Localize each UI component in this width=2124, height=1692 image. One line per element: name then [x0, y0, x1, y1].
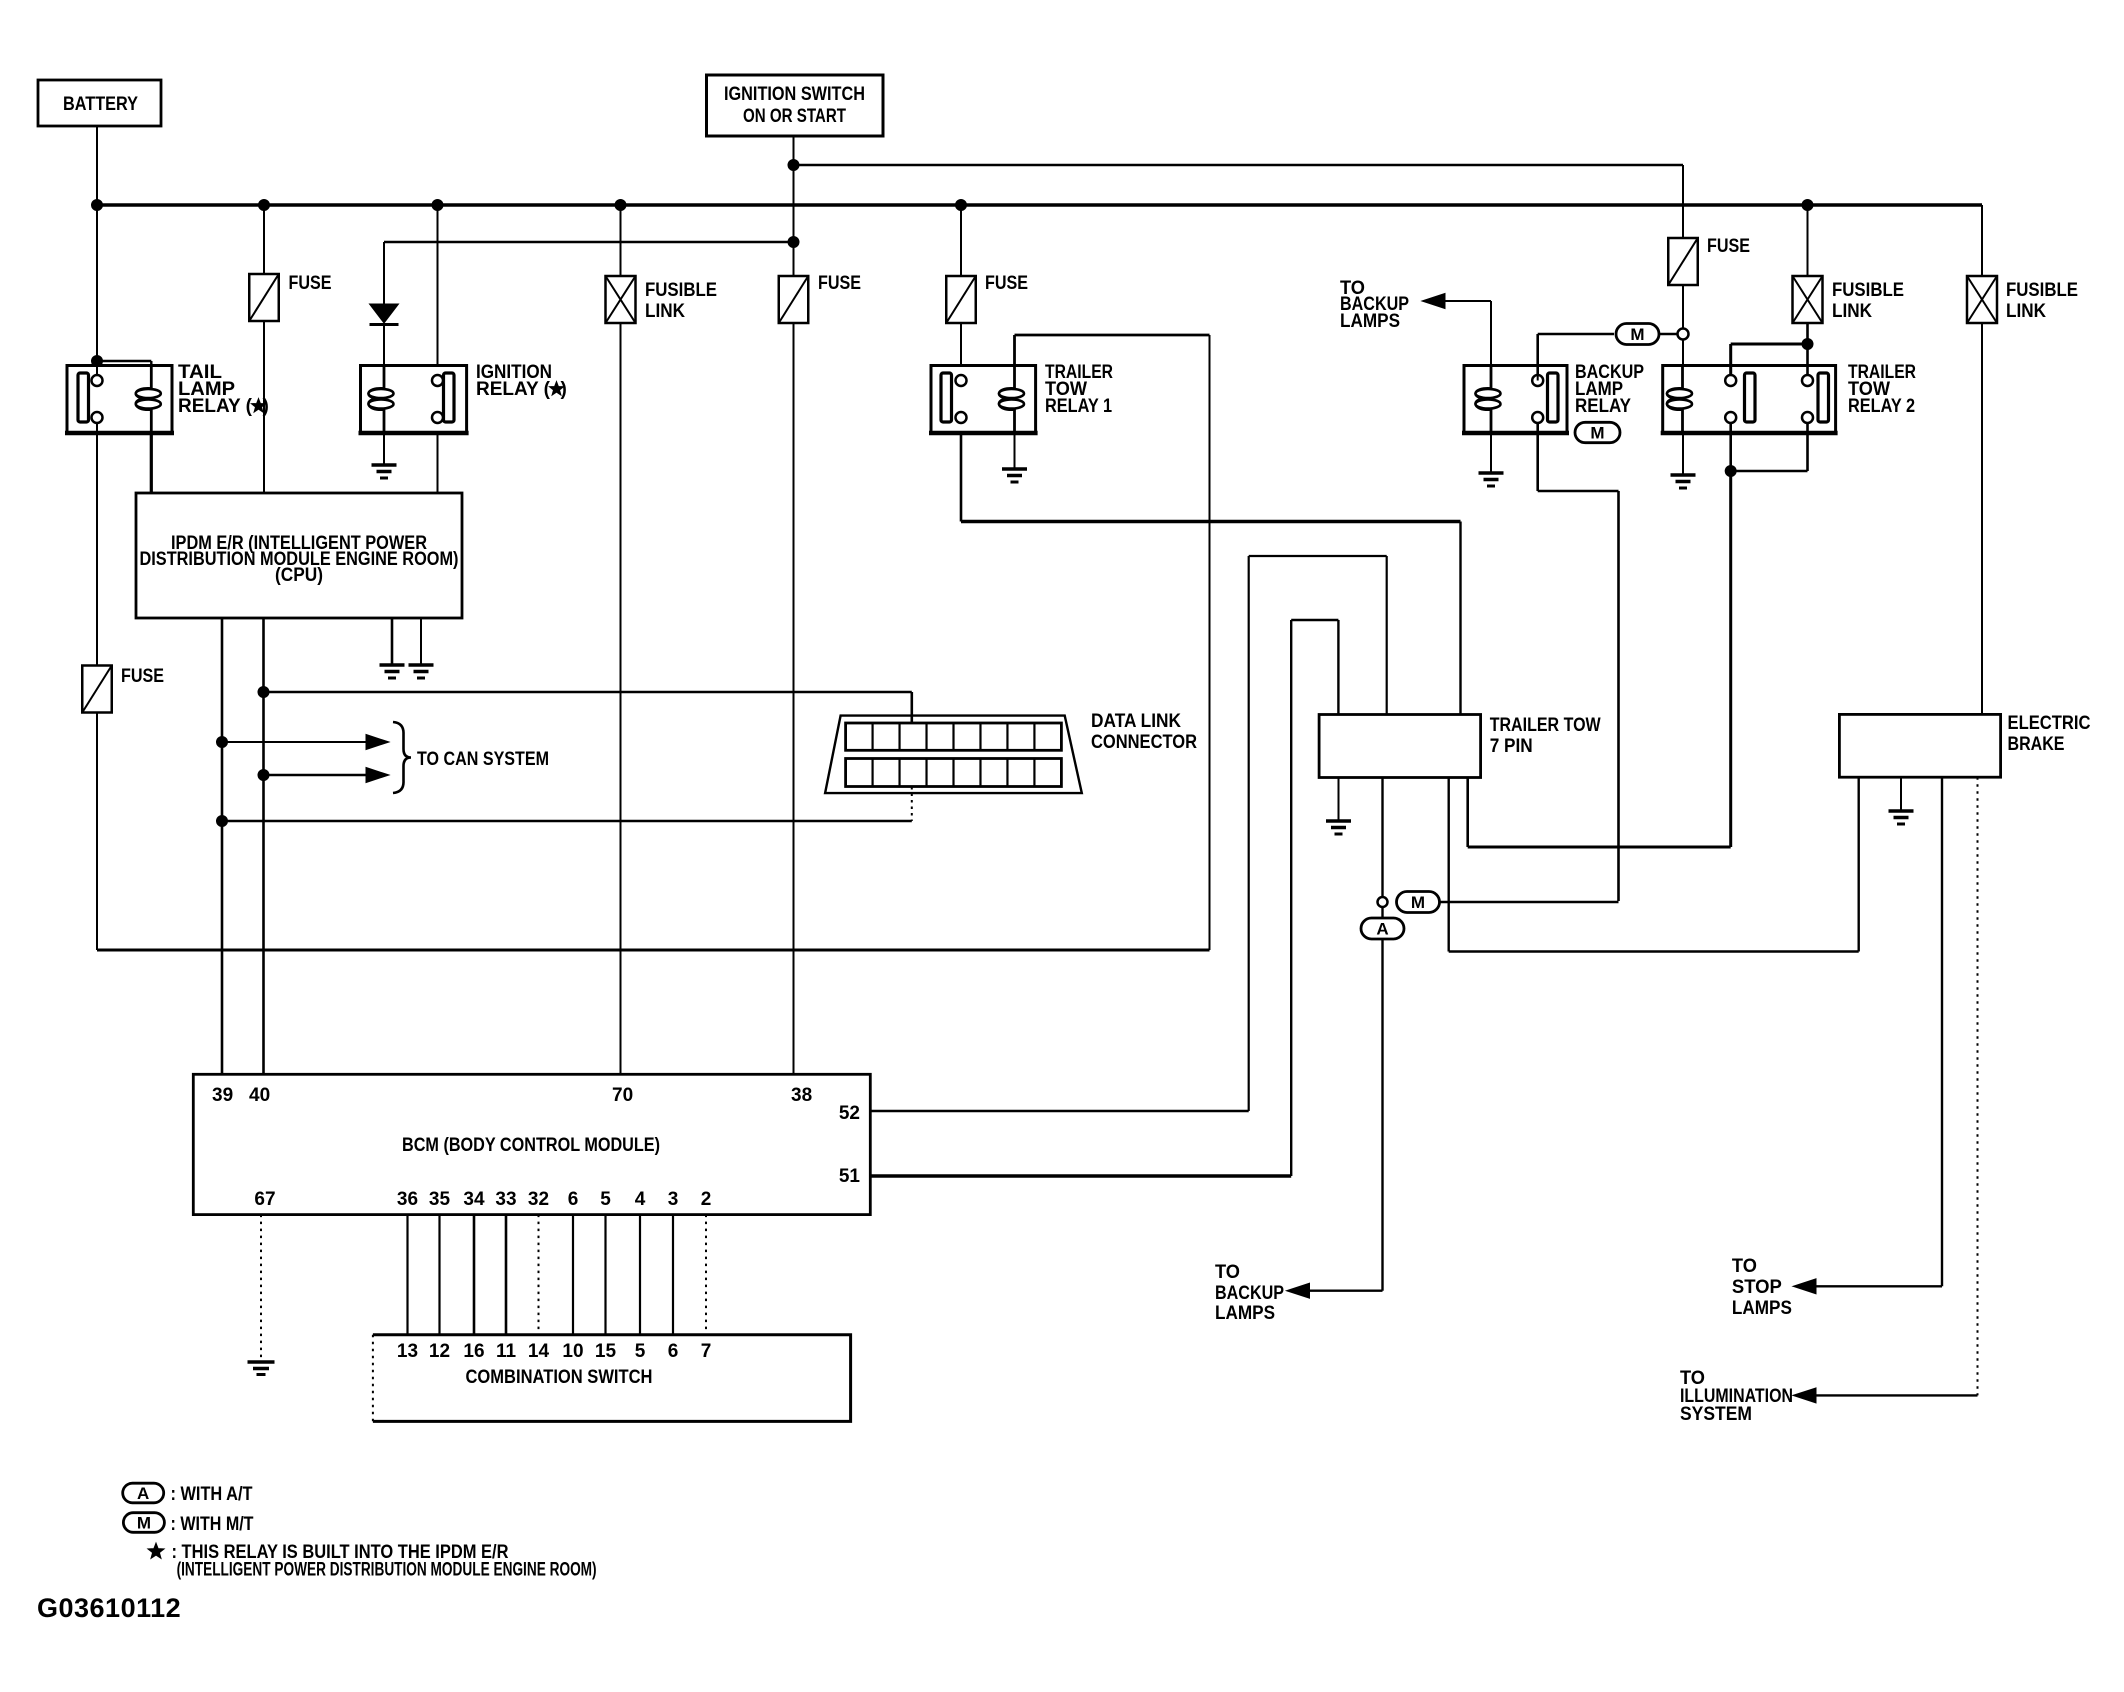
trailer tow relay 1 contact	[941, 373, 967, 423]
ignition relay coil	[369, 366, 394, 434]
wire ignition switch vertical to diode feed	[793, 165, 795, 242]
svg-text:5: 5	[635, 1341, 646, 1362]
wire to backup lamps with arrow	[1422, 294, 1491, 366]
svg-text:LAMPS: LAMPS	[1215, 1303, 1275, 1324]
svg-text:M: M	[1630, 325, 1644, 344]
svg-text:COMBINATION SWITCH: COMBINATION SWITCH	[466, 1367, 653, 1388]
wire relay 2 output down to y847 run	[1729, 471, 1732, 847]
brace TO CAN SYSTEM	[393, 722, 411, 793]
junction bus at tail lamp fuse	[259, 200, 270, 211]
label TRAILER TOW 7 PIN	[1490, 715, 1601, 757]
junction bus at trailer tow relay 1 fuse	[956, 200, 967, 211]
svg-text:10: 10	[562, 1341, 583, 1362]
svg-text:A: A	[137, 1484, 149, 1503]
wire trailer tow relay 1 coil feed up	[1013, 335, 1016, 366]
svg-text:M: M	[1590, 424, 1604, 443]
fuse (backup lamp relay feed)	[1668, 238, 1698, 285]
svg-text:(CPU): (CPU)	[275, 565, 323, 586]
wire branch to tail lamp relay coil	[97, 360, 151, 362]
junction BCM40 line / DLC line	[258, 687, 269, 698]
data link connector	[825, 716, 1082, 794]
svg-text:RELAY 1: RELAY 1	[1045, 396, 1112, 417]
svg-text:LINK: LINK	[1832, 301, 1872, 322]
star symbol in ignition relay label	[549, 382, 563, 396]
svg-text:G03610112: G03610112	[37, 1593, 181, 1623]
svg-text:ON OR START: ON OR START	[743, 106, 846, 127]
legend oval A	[123, 1483, 164, 1503]
svg-text:2: 2	[701, 1189, 712, 1210]
label TAIL LAMP RELAY (*)	[178, 362, 269, 417]
wire fuse to connector circle	[1682, 285, 1684, 329]
svg-text:5: 5	[600, 1189, 611, 1210]
tail lamp relay box	[65, 366, 174, 434]
wire bus to fuse (trailer tow relay 1)	[960, 205, 962, 276]
wire BCM to combination switch pin 13	[406, 1215, 408, 1335]
wire BCM to combination switch pin 6	[672, 1215, 674, 1335]
wire y847 run to trailer tow 7pin	[1468, 778, 1731, 848]
label ELECTRIC BRAKE	[2008, 713, 2091, 755]
svg-text:33: 33	[495, 1189, 516, 1210]
wire fuse down to cross run	[96, 713, 98, 951]
wire diode feed down	[383, 242, 385, 304]
svg-text:FUSE: FUSE	[818, 273, 861, 294]
junction trailer tow relay 2 contacts feed	[1802, 339, 1813, 350]
wire trailer tow relay 2 coil to ground	[1682, 433, 1684, 475]
wire BCM to combination switch pin 16	[473, 1215, 476, 1335]
svg-text:FUSE: FUSE	[289, 273, 332, 294]
wire relay 2 contact outputs joined	[1731, 423, 1808, 471]
oval M (M/T path to backup lamp relay)	[1397, 892, 1440, 913]
wire BCM pin 51 to trailer tow 7pin	[870, 620, 1338, 1176]
wire trailer tow relay 1 coil to ground	[1014, 433, 1016, 469]
svg-text:70: 70	[612, 1085, 633, 1106]
wire fuse to IPDM	[263, 321, 265, 494]
svg-text:RELAY: RELAY	[1575, 396, 1631, 417]
fuse (tail lamp relay output)	[82, 666, 112, 713]
wire ignition switch down	[793, 136, 795, 165]
fusible link (trailer tow relay 2)	[1793, 276, 1823, 323]
wire BCM to combination switch pin 11	[505, 1215, 508, 1335]
svg-text:11: 11	[496, 1341, 517, 1362]
wire ignition feed to fuse	[1682, 165, 1684, 238]
wire BCM pin 52 to trailer tow 7pin	[870, 556, 1386, 1111]
wire circle to A oval	[1381, 907, 1383, 918]
ground (trailer tow relay 1 coil)	[1002, 469, 1027, 482]
svg-text:M: M	[1411, 893, 1425, 912]
electric brake unit	[1839, 714, 2000, 777]
svg-text:BACKUP: BACKUP	[1215, 1283, 1284, 1304]
svg-text:LAMPS: LAMPS	[1732, 1298, 1792, 1319]
oval A (A/T path)	[1361, 918, 1404, 939]
legend oval M	[123, 1513, 164, 1533]
svg-text:TO CAN SYSTEM: TO CAN SYSTEM	[417, 749, 549, 770]
fuse (ignition feed to BCM 38)	[779, 276, 809, 323]
wire ignition feed bus (y165)	[794, 164, 1684, 167]
connector circle (fuse to backup lamp relay)	[1678, 329, 1689, 340]
svg-text:52: 52	[839, 1103, 860, 1124]
svg-text:FUSIBLE: FUSIBLE	[2006, 280, 2078, 301]
svg-text:16: 16	[463, 1341, 484, 1362]
wire fusible link down to junction	[1806, 323, 1809, 381]
wire ignition relay coil to ground	[383, 433, 385, 465]
wire BCM to combination switch pin 14	[538, 1215, 540, 1335]
wire fusible link to electric brake	[1981, 323, 1983, 714]
wire electric brake to stop lamps	[1793, 777, 1942, 1294]
svg-text:6: 6	[568, 1189, 579, 1210]
svg-text:: WITH M/T: : WITH M/T	[171, 1514, 254, 1535]
svg-text:LINK: LINK	[645, 301, 685, 322]
junction BCM39 line / DLC bottom line	[217, 816, 228, 827]
trailer tow relay 1 coil	[999, 366, 1024, 434]
label DATA LINK CONNECTOR	[1091, 711, 1197, 753]
svg-text:FUSE: FUSE	[985, 273, 1028, 294]
label FUSIBLE LINK	[2006, 280, 2078, 322]
wire IPDM ground 2	[420, 618, 422, 665]
wire electric brake to illumination system (dotted)	[1793, 777, 1978, 1403]
ground (IPDM 2)	[409, 665, 434, 678]
wire bus to ignition relay contact	[437, 205, 439, 366]
trailer tow relay 2 coil	[1667, 366, 1692, 434]
label FUSIBLE LINK	[1832, 280, 1904, 322]
svg-text:32: 32	[528, 1189, 549, 1210]
ignition switch	[707, 75, 884, 136]
svg-text:FUSE: FUSE	[1707, 236, 1750, 257]
fuse (tail lamp relay feed)	[249, 274, 279, 321]
svg-text:12: 12	[429, 1341, 450, 1362]
junction BCM40 line / CAN-L	[258, 770, 269, 781]
svg-text:36: 36	[397, 1189, 418, 1210]
svg-text:TO: TO	[1215, 1262, 1240, 1283]
svg-text:LINK: LINK	[2006, 301, 2046, 322]
svg-text:38: 38	[791, 1085, 812, 1106]
oval M (M/T variant, ignition fused feed)	[1616, 324, 1659, 345]
wire tail lamp relay coil to IPDM	[150, 433, 153, 493]
wire BCM to combination switch pin 10	[572, 1215, 574, 1335]
ground (trailer tow relay 2 coil)	[1671, 475, 1696, 488]
wire electric brake ground	[1900, 777, 1902, 811]
ground (electric brake)	[1889, 811, 1914, 824]
svg-text:BCM (BODY CONTROL MODULE): BCM (BODY CONTROL MODULE)	[402, 1135, 660, 1156]
IPDM E/R module	[136, 493, 462, 618]
wire IPDM to BCM pin 40	[262, 618, 265, 1074]
svg-text:FUSE: FUSE	[121, 666, 164, 687]
tail lamp relay coil	[136, 366, 161, 434]
wire bus to fuse	[263, 205, 265, 274]
BCM body control module	[193, 1074, 870, 1214]
trailer tow relay 2 box	[1661, 366, 1838, 434]
wire BCM pin 67 to ground (dotted)	[260, 1215, 262, 1360]
wire backup lamp relay contact bottom output	[1538, 423, 1619, 901]
wire branch to first contact of relay 2	[1731, 344, 1808, 375]
fusible link (electric brake feed)	[1967, 276, 1997, 323]
svg-text:ELECTRIC: ELECTRIC	[2008, 713, 2091, 734]
wire fuse to BCM pin 38	[793, 323, 795, 1074]
svg-text:(INTELLIGENT POWER DISTRIBUTIO: (INTELLIGENT POWER DISTRIBUTION MODULE E…	[177, 1560, 597, 1581]
svg-text:7 PIN: 7 PIN	[1490, 736, 1533, 757]
wire BCM to combination switch pin 7	[705, 1215, 707, 1335]
label FUSIBLE LINK	[645, 280, 717, 322]
wire M oval to connector circle	[1660, 333, 1679, 336]
wire up to trailer tow relay 1 coil feed	[1209, 335, 1211, 950]
fuse (trailer tow relay 1)	[946, 276, 976, 323]
label TO BACKUP LAMPS (bottom)	[1215, 1262, 1284, 1324]
wire BCM to combination switch pin 15	[604, 1215, 606, 1335]
star symbol in tail lamp relay label	[251, 399, 265, 413]
svg-text:STOP: STOP	[1732, 1277, 1782, 1298]
trailer tow relay 2 contact 2	[1802, 373, 1829, 423]
wire BCM to combination switch pin 5	[639, 1215, 641, 1335]
svg-text:13: 13	[397, 1341, 418, 1362]
junction bus at ignition relay drop	[432, 200, 443, 211]
label BACKUP LAMP RELAY	[1575, 362, 1644, 417]
wire trailer tow relay 1 coil top feed (y335)	[1015, 334, 1210, 337]
wire to data link connector bottom (y821)	[222, 787, 912, 821]
svg-text:FUSIBLE: FUSIBLE	[645, 280, 717, 301]
diode (ignition relay coil feed)	[370, 304, 399, 325]
svg-text:34: 34	[463, 1189, 485, 1210]
wire IPDM ground 1	[391, 618, 394, 665]
svg-text:DATA LINK: DATA LINK	[1091, 711, 1181, 732]
svg-text:6: 6	[668, 1341, 679, 1362]
junction bus at battery drop	[92, 200, 103, 211]
junction bus at trailer tow relay 2 fusible link	[1802, 200, 1813, 211]
svg-text:7: 7	[701, 1341, 712, 1362]
svg-text:BATTERY: BATTERY	[63, 94, 138, 115]
wire battery drop to tail lamp relay	[96, 205, 98, 375]
label TRAILER TOW RELAY 1	[1045, 362, 1113, 417]
junction relay 2 output	[1725, 466, 1736, 477]
ignition relay contact	[432, 373, 454, 423]
wire ignition relay contact to IPDM	[437, 433, 439, 493]
battery	[38, 80, 161, 126]
ground (backup lamp relay coil)	[1479, 473, 1504, 486]
wire battery to bus	[96, 126, 98, 205]
trailer tow 7 pin connector	[1319, 715, 1481, 778]
wire IPDM to BCM pin 39	[221, 618, 224, 1074]
backup lamp relay coil	[1476, 366, 1501, 434]
ground (IPDM 1)	[380, 665, 405, 678]
wire tail lamp relay contact to fuse	[96, 423, 98, 666]
svg-text:35: 35	[429, 1189, 451, 1210]
svg-text:15: 15	[595, 1341, 617, 1362]
wire 7pin to electric brake (y951.5)	[1449, 777, 1859, 951]
wire trailer tow relay 1 output (y521.5)	[961, 433, 1461, 715]
junction tail lamp relay coil branch	[92, 356, 103, 367]
label TO STOP LAMPS	[1732, 1256, 1792, 1319]
svg-text:M: M	[137, 1514, 151, 1533]
junction bus at fusible link (BCM 70)	[615, 200, 626, 211]
connector circle (A/T / M/T split)	[1378, 897, 1388, 907]
wire 7pin ground	[1338, 778, 1340, 822]
tail lamp relay contact	[78, 373, 103, 423]
wire bus right end down	[1981, 205, 1983, 276]
junction BCM39 line / CAN-H	[217, 737, 228, 748]
wire battery bus (y205)	[97, 203, 1982, 207]
wire BCM to combination switch pin 12	[438, 1215, 440, 1335]
fusible link (BCM 70 feed)	[606, 276, 636, 323]
wire backup lamp relay contact top to M oval line	[1538, 334, 1614, 381]
wire cross run to trailer tow relay 1 (y950)	[97, 949, 1210, 952]
trailer tow relay 1 box	[929, 366, 1038, 434]
wire connector circle to trailer tow relay 2 coil	[1682, 340, 1684, 366]
wire fusible link to BCM pin 70	[620, 323, 622, 1074]
svg-text:FUSIBLE: FUSIBLE	[1832, 280, 1904, 301]
svg-text:40: 40	[249, 1085, 270, 1106]
wire diode to ignition relay coil	[383, 325, 385, 366]
wire backup lamp relay coil to ground	[1490, 433, 1492, 473]
label TRAILER TOW RELAY 2	[1848, 362, 1916, 417]
svg-text:IGNITION SWITCH: IGNITION SWITCH	[724, 84, 865, 105]
svg-text:3: 3	[668, 1189, 679, 1210]
label TO ILLUMINATION SYSTEM	[1680, 1368, 1793, 1425]
ground (trailer tow 7 pin)	[1326, 821, 1351, 834]
svg-text:51: 51	[839, 1166, 861, 1187]
ground (ignition relay coil)	[372, 465, 397, 478]
svg-text:39: 39	[212, 1085, 233, 1106]
svg-text:BRAKE: BRAKE	[2008, 734, 2065, 755]
svg-text:14: 14	[528, 1341, 550, 1362]
wire M oval to backup relay output line	[1440, 901, 1619, 904]
svg-text:SYSTEM: SYSTEM	[1680, 1404, 1752, 1425]
svg-text:4: 4	[635, 1189, 646, 1210]
backup lamp relay box	[1462, 366, 1569, 434]
wire A oval down to backup lamps arrow	[1287, 939, 1383, 1298]
backup lamp relay contact	[1532, 373, 1558, 423]
ground (BCM pin 67)	[248, 1362, 275, 1375]
svg-text:CONNECTOR: CONNECTOR	[1091, 732, 1197, 753]
label TO BACKUP LAMPS (from backup lamp relay coil)	[1340, 278, 1409, 332]
junction diode feed tap	[788, 237, 799, 248]
svg-text:RELAY 2: RELAY 2	[1848, 396, 1915, 417]
oval M (backup lamp relay with M/T)	[1575, 422, 1620, 442]
label IGNITION RELAY (*)	[476, 362, 567, 400]
junction ignition switch / ignition feed	[788, 160, 799, 171]
wire fuse to trailer tow relay 1 contact	[960, 323, 962, 366]
wire 7pin backup lamp output (A/T-M/T)	[1381, 778, 1383, 897]
ignition relay box	[359, 366, 469, 434]
svg-text:LAMPS: LAMPS	[1340, 311, 1400, 332]
wire ignition vertical to fuse (BCM 38 branch)	[793, 242, 795, 276]
wire CAN arrow 1 (CAN-H)	[222, 735, 389, 750]
svg-text:67: 67	[254, 1189, 275, 1210]
svg-text:TO: TO	[1732, 1256, 1757, 1277]
svg-text:TRAILER TOW: TRAILER TOW	[1490, 715, 1601, 736]
combination switch	[373, 1335, 851, 1422]
wire to data link connector top (y692)	[264, 692, 912, 723]
wire bus to fusible link (trailer tow relay 2)	[1807, 205, 1809, 276]
svg-text:A: A	[1376, 920, 1388, 939]
wire bus to fusible link	[620, 205, 622, 276]
wire CAN arrow 2 (CAN-L)	[264, 768, 390, 783]
svg-text:: WITH A/T: : WITH A/T	[171, 1484, 253, 1505]
wire diode feed (y242)	[384, 241, 794, 243]
trailer tow relay 2 contact 1	[1725, 373, 1755, 423]
legend star symbol	[148, 1543, 164, 1558]
